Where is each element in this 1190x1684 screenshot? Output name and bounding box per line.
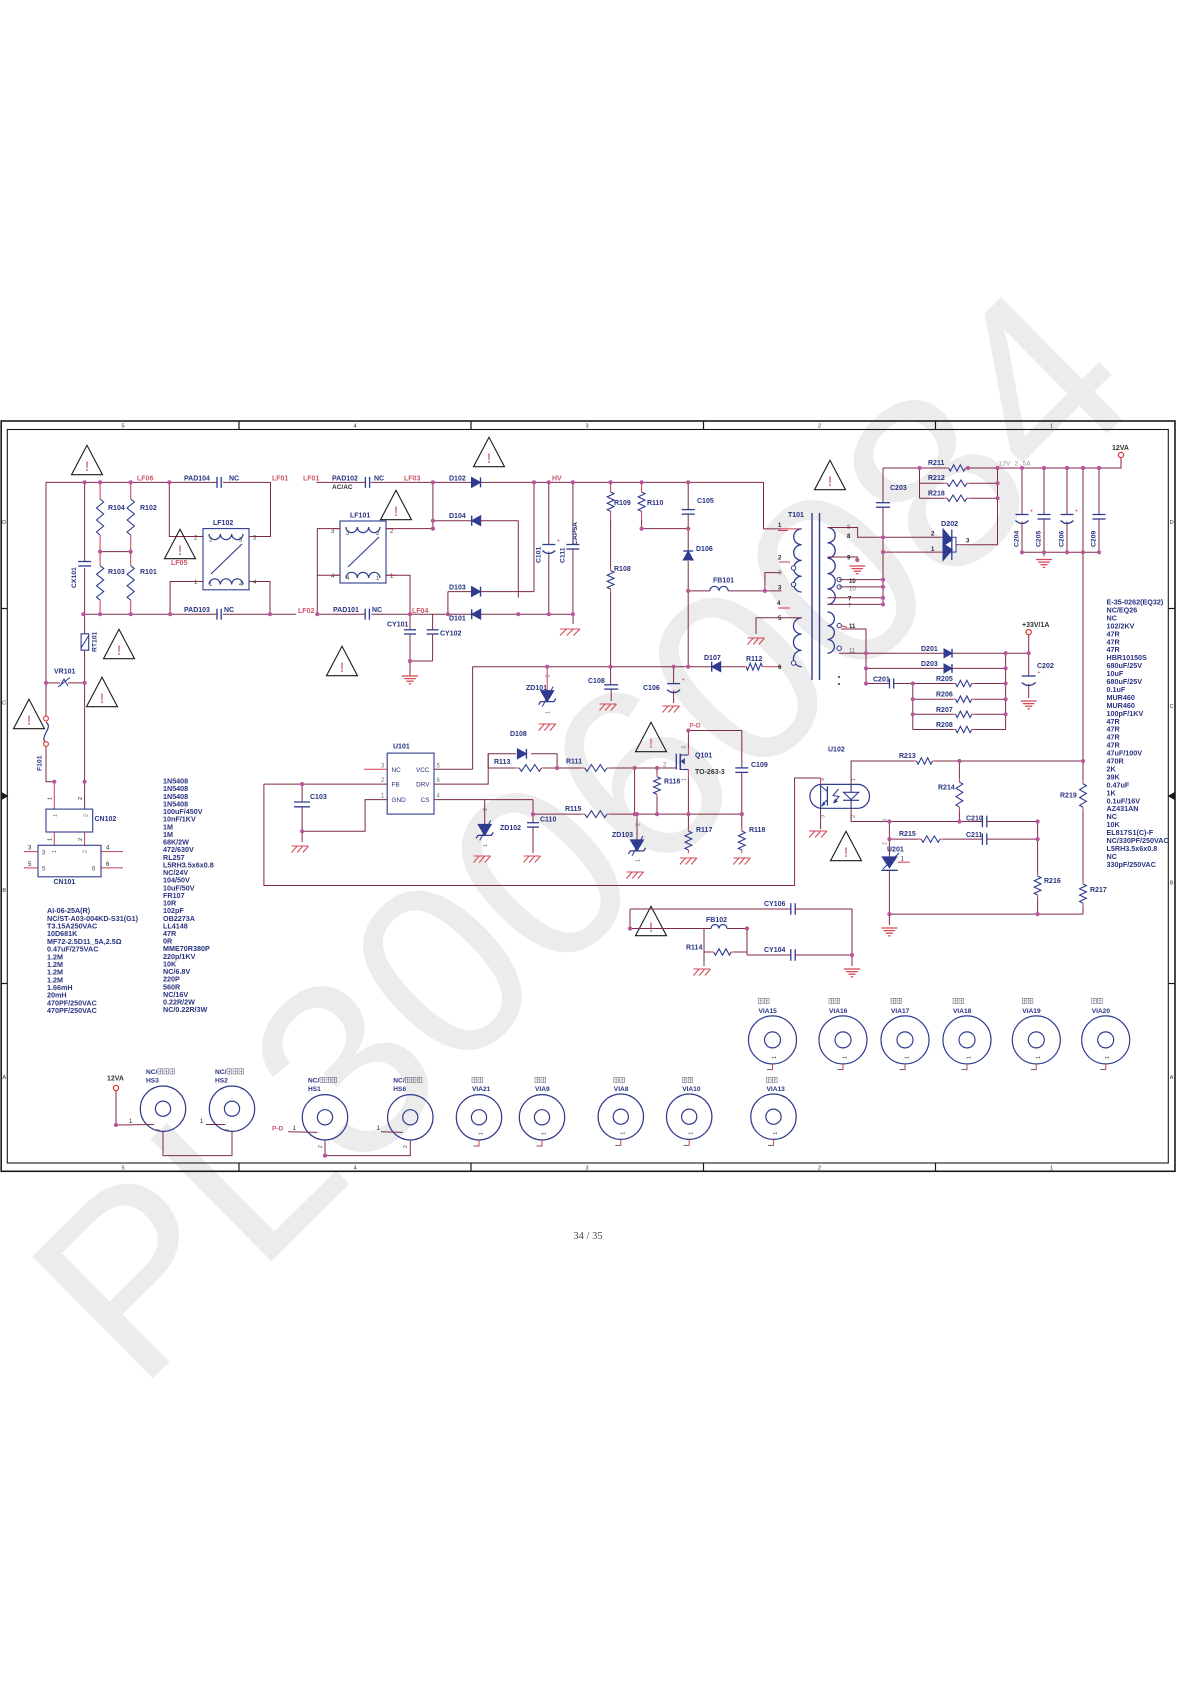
wire P-D to HS1 — [288, 1131, 317, 1134]
svg-text:R208: R208 — [936, 722, 953, 729]
resistor R215 — [918, 838, 921, 840]
svg-text:DRV: DRV — [416, 782, 430, 789]
capacitor C203 — [876, 502, 890, 504]
varistor VR101 — [46, 682, 60, 684]
svg-text:C109: C109 — [751, 762, 768, 769]
wire caps bottom bus — [1022, 551, 1099, 553]
svg-text:1: 1 — [773, 1132, 779, 1135]
svg-text:FB: FB — [392, 782, 400, 789]
wire D203 row — [866, 667, 944, 669]
svg-text:D: D — [2, 520, 6, 526]
ground below R118 — [733, 857, 750, 859]
wire LF102 pin1 to bottom bus — [170, 582, 203, 615]
wire LF102 pin3 to top bus — [249, 482, 271, 536]
wire R215 to C211 — [943, 838, 982, 840]
wire U101 pin4 CS — [434, 799, 533, 801]
svg-text:R117: R117 — [696, 827, 712, 834]
diode D108 — [517, 749, 526, 759]
resistor R103 — [99, 552, 101, 566]
diode D201 — [944, 649, 952, 658]
svg-text:1: 1 — [1050, 1165, 1053, 1171]
wire HV bus — [481, 482, 782, 529]
wire 12V return vertical — [1082, 468, 1084, 761]
svg-text:R213: R213 — [899, 753, 916, 760]
wire R110 bottom row — [641, 520, 643, 529]
svg-text:1: 1 — [851, 778, 857, 781]
text list right column — [1107, 598, 1169, 869]
wire FB loop left — [264, 783, 302, 785]
connector CN101 — [38, 845, 101, 877]
wire R112 to T101 pin6 — [765, 666, 782, 668]
capacitor C205 — [1043, 468, 1045, 515]
wire +33V vertical — [1028, 635, 1030, 676]
wire FB102 row — [629, 909, 631, 929]
wire CN101 side stubs — [24, 851, 38, 853]
svg-text:2: 2 — [83, 850, 89, 853]
resistor R109 — [610, 482, 612, 492]
inductor LF101 — [340, 521, 386, 583]
svg-text:VIA13: VIA13 — [767, 1086, 786, 1093]
ground below C202 — [1021, 700, 1037, 702]
svg-text:C108: C108 — [588, 678, 605, 685]
diode D102 — [472, 477, 481, 487]
capacitor C106 — [673, 667, 675, 684]
resistor R112 — [744, 666, 747, 668]
svg-text:HS2: HS2 — [215, 1078, 228, 1085]
svg-text:C106: C106 — [643, 685, 660, 692]
svg-text:+33V/1A: +33V/1A — [1022, 622, 1049, 629]
resistor R110 — [641, 482, 643, 492]
svg-text:R108: R108 — [614, 566, 631, 573]
resistor R117 — [687, 814, 689, 828]
svg-text:D: D — [1170, 520, 1174, 526]
svg-text:A: A — [2, 1075, 6, 1081]
wire R213 to R219 — [935, 760, 1083, 762]
wire R212 R218 to node vertical — [970, 482, 998, 484]
svg-text:C: C — [2, 701, 6, 707]
svg-text:U201: U201 — [887, 847, 904, 854]
capacitor C211 — [981, 833, 983, 845]
resistor R104 — [99, 482, 101, 499]
svg-text:1: 1 — [967, 1056, 973, 1059]
resistor R214 — [958, 761, 960, 778]
svg-text:R118: R118 — [749, 827, 765, 834]
stubs LF101 pins — [333, 528, 340, 530]
ground below C103 — [292, 845, 309, 847]
svg-text:C202: C202 — [1037, 663, 1054, 670]
svg-text:C105: C105 — [697, 498, 714, 505]
wire CY104 to ground — [795, 955, 852, 966]
svg-text:1: 1 — [48, 797, 54, 800]
svg-text:C203: C203 — [890, 485, 907, 492]
svg-text:R218: R218 — [928, 491, 945, 498]
svg-text:1: 1 — [1036, 1056, 1042, 1059]
svg-text:4: 4 — [353, 424, 356, 430]
resistor R113 — [516, 767, 520, 769]
svg-text:R111: R111 — [566, 759, 582, 766]
svg-text:HV: HV — [552, 475, 562, 482]
pad VIA17 — [891, 998, 896, 1003]
warning triangle T5 — [14, 699, 45, 728]
svg-text:HS6: HS6 — [393, 1086, 406, 1093]
warning triangle T10 — [636, 722, 667, 751]
svg-text:C204: C204 — [1014, 531, 1021, 547]
svg-text:Q101: Q101 — [695, 753, 712, 760]
svg-text:LF01: LF01 — [272, 475, 288, 482]
resistor R212 — [919, 468, 921, 498]
zener ZD103 — [636, 814, 638, 840]
zener ZD101 — [546, 667, 548, 691]
fuse F101 — [45, 683, 47, 716]
warning triangle T8 — [474, 437, 505, 466]
diode D104 — [472, 516, 481, 526]
svg-text:!: ! — [100, 691, 105, 706]
border column numbers bottom — [121, 1165, 1053, 1171]
wire D201 out — [952, 652, 1029, 654]
svg-text:+: + — [682, 678, 685, 684]
svg-text:C103: C103 — [310, 794, 327, 801]
svg-text:NC/: NC/ — [146, 1069, 158, 1076]
wire C103 bottom to ground — [301, 831, 303, 842]
ground below ZD103 — [627, 871, 644, 873]
pad VIA9 — [535, 1077, 540, 1082]
wire source row — [611, 813, 742, 815]
warning triangle T4 — [87, 677, 118, 706]
capacitor C105 — [687, 482, 689, 509]
svg-text:D108: D108 — [510, 731, 527, 738]
resistor R205 — [913, 683, 953, 685]
svg-text:VIA17: VIA17 — [891, 1008, 910, 1015]
capacitor C103 — [301, 784, 303, 802]
svg-text:LF03: LF03 — [404, 475, 420, 482]
wire U102 pin1 to R213 — [851, 761, 914, 784]
border frame outer — [1, 421, 1175, 1171]
ground below R117 — [680, 857, 697, 859]
svg-text:LF04: LF04 — [412, 608, 428, 615]
thermistor RT101 — [84, 614, 86, 634]
wire LF102 pin4 to bottom bus — [249, 582, 270, 615]
svg-text:1: 1 — [53, 814, 59, 817]
resistor R207 — [913, 713, 953, 715]
svg-text:1: 1 — [546, 711, 552, 714]
resistor R118 — [741, 814, 743, 828]
svg-text:R115: R115 — [565, 806, 581, 813]
svg-text:VIA15: VIA15 — [759, 1008, 778, 1015]
capacitor C202 — [1022, 675, 1036, 677]
transformer T101 core — [811, 513, 813, 680]
svg-text:!: ! — [178, 543, 183, 558]
wire DRV to R113 — [488, 767, 516, 769]
svg-text:2: 2 — [818, 1165, 821, 1171]
wire 12VA to HS3 — [116, 1124, 154, 1127]
svg-text:R110: R110 — [647, 500, 663, 507]
svg-text:VIA18: VIA18 — [953, 1008, 972, 1015]
ground below C110 — [524, 855, 541, 857]
resistor R218 — [920, 497, 945, 499]
capacitor PAD101 — [364, 609, 366, 620]
svg-text:1: 1 — [52, 850, 58, 853]
warning triangle T11 — [831, 831, 862, 860]
wire left vertical from top bus to VR101 row — [45, 482, 47, 683]
wire ladder right vertical — [1005, 653, 1007, 729]
svg-text:R116: R116 — [664, 779, 680, 786]
wire D202 pin3 to rail — [956, 542, 998, 545]
wire secondary taps to vertical — [839, 579, 883, 581]
svg-text:!: ! — [828, 474, 833, 489]
svg-text:CY102: CY102 — [440, 631, 462, 638]
wire U101 pin1 GND loop — [302, 800, 387, 832]
svg-text:2: 2 — [883, 842, 889, 845]
svg-text:B: B — [1170, 881, 1174, 887]
svg-text:470PF/250VAC: 470PF/250VAC — [47, 1006, 97, 1015]
wire U101 pin3 stub — [364, 768, 387, 770]
wire HS2 pin1 stub — [206, 1124, 225, 1126]
wire R216 vertical — [1037, 822, 1039, 874]
wire R104 R102 mid row — [100, 551, 131, 553]
svg-text:!: ! — [340, 660, 345, 675]
svg-text:LF06: LF06 — [137, 475, 153, 482]
svg-text:C205: C205 — [1036, 531, 1043, 547]
svg-text:D104: D104 — [449, 513, 466, 520]
transformer dots mark — [838, 676, 840, 678]
svg-text:TO-263-3: TO-263-3 — [695, 769, 725, 776]
warning triangle T12 — [636, 906, 667, 935]
svg-text:!: ! — [117, 643, 122, 658]
svg-text:R219: R219 — [1060, 793, 1077, 800]
svg-text:GND: GND — [392, 797, 407, 804]
svg-text:R205: R205 — [936, 676, 953, 683]
warning triangle T2 — [165, 529, 196, 558]
svg-text:R215: R215 — [899, 831, 916, 838]
svg-text:2: 2 — [78, 797, 84, 800]
svg-text:R109: R109 — [614, 500, 631, 507]
svg-text:2: 2 — [78, 838, 84, 841]
capacitor C206 — [1066, 468, 1068, 515]
svg-text:R113: R113 — [494, 759, 510, 766]
svg-text:NC/: NC/ — [393, 1078, 405, 1085]
capacitor CY102 — [432, 614, 434, 630]
svg-text:R206: R206 — [936, 692, 953, 699]
svg-text:NC/: NC/ — [308, 1078, 320, 1085]
svg-text:2: 2 — [84, 814, 90, 817]
svg-text:4: 4 — [821, 778, 827, 781]
svg-text:NC: NC — [372, 607, 382, 614]
svg-text:LF101: LF101 — [350, 513, 370, 520]
wire D203 out — [952, 667, 1006, 669]
connector CN102 — [46, 809, 93, 832]
svg-text:R216: R216 — [1044, 878, 1061, 885]
svg-text:!: ! — [85, 459, 90, 474]
svg-text:2: 2 — [818, 424, 821, 430]
svg-text:3: 3 — [821, 815, 827, 818]
svg-text:C: C — [1170, 704, 1174, 710]
ground below C111 — [560, 628, 580, 630]
pad VIA18 — [953, 998, 958, 1003]
wire F101 to CN102 — [46, 746, 54, 781]
svg-text:NC: NC — [374, 475, 384, 482]
warning triangle T3 — [104, 629, 135, 658]
warning triangle T1 — [72, 445, 103, 474]
svg-text:VIA21: VIA21 — [472, 1086, 491, 1093]
resistor R211 — [946, 467, 949, 469]
wire U101 pin2 FB — [302, 783, 387, 785]
svg-text:C210: C210 — [966, 815, 983, 822]
wire T101 pin8 to D202 — [828, 528, 944, 538]
resistor R219 — [1082, 761, 1084, 780]
terminal 12VA — [1118, 452, 1123, 457]
wire R113 right — [545, 767, 581, 769]
wire D202 pin1 row — [883, 551, 943, 553]
svg-text:2: 2 — [318, 1145, 324, 1148]
capacitor C108 — [610, 667, 612, 685]
svg-text:2: 2 — [403, 1145, 409, 1148]
svg-text:D203: D203 — [921, 661, 938, 668]
svg-text:CY106: CY106 — [764, 901, 786, 908]
svg-text:VIA20: VIA20 — [1092, 1008, 1111, 1015]
wire C211 to R216 vertical — [987, 838, 1038, 840]
pad VIA21 — [472, 1077, 477, 1082]
svg-text:C110: C110 — [540, 817, 556, 824]
ic U101 box — [387, 753, 434, 814]
svg-text:C201: C201 — [873, 676, 890, 683]
svg-text:D103: D103 — [449, 584, 466, 591]
svg-text:R102: R102 — [140, 505, 157, 512]
wire D106 to FB101 row and bottom — [687, 591, 689, 667]
svg-text:ZD102: ZD102 — [500, 825, 521, 832]
svg-text:CAP5A: CAP5A — [572, 522, 579, 545]
svg-text:R211: R211 — [928, 460, 944, 467]
svg-text:2: 2 — [156, 1129, 162, 1132]
inductor FB102 — [711, 925, 727, 929]
capacitor CY104 — [790, 949, 792, 961]
svg-text:R101: R101 — [140, 569, 157, 576]
warning triangle T6 — [381, 490, 412, 519]
pad VIA20 — [1092, 998, 1097, 1003]
inductor LF102 — [203, 529, 249, 590]
warning triangle T9 — [815, 460, 846, 489]
svg-text:2: 2 — [483, 808, 489, 811]
svg-text:CN101: CN101 — [54, 879, 76, 886]
svg-text:VIA19: VIA19 — [1022, 1008, 1041, 1015]
wire FB101 to T101 pin3 — [765, 590, 782, 592]
capacitor CY106 — [790, 903, 792, 915]
wire LF101 pins 3 4 to bottom bus — [317, 529, 340, 615]
resistor R101 — [130, 552, 132, 566]
svg-text:VIA9: VIA9 — [535, 1086, 550, 1093]
wire CY101 CY102 join — [410, 660, 433, 662]
svg-text:C206: C206 — [1059, 531, 1066, 547]
border frame inner — [7, 430, 1168, 1164]
svg-text:R114: R114 — [686, 945, 702, 952]
pad VIA16 — [829, 998, 834, 1003]
wire Q101 drain to P-D row — [688, 731, 741, 749]
svg-text:RT101: RT101 — [92, 631, 99, 652]
svg-text:R104: R104 — [108, 505, 125, 512]
transformer T101 secondary upper winding — [828, 528, 836, 605]
wire C201 row — [865, 653, 867, 683]
svg-text:1: 1 — [636, 859, 642, 862]
border center arrows — [2, 792, 9, 800]
resistor R108 — [610, 520, 612, 568]
svg-text:LF02: LF02 — [298, 608, 314, 615]
ground below C106 — [663, 705, 680, 707]
svg-text:!: ! — [487, 451, 492, 466]
wire R114 ground stub — [703, 952, 705, 966]
transformer T101 secondary phase dots — [837, 577, 841, 581]
ground below R114 — [694, 968, 711, 970]
capacitor CY101 — [409, 614, 411, 630]
svg-text:1: 1 — [483, 844, 489, 847]
wire R115 row — [533, 813, 581, 815]
wire CY106 to right vertical — [795, 909, 852, 955]
svg-text:1: 1 — [1050, 424, 1053, 430]
resistor R111 — [581, 767, 585, 769]
inductor FB101 — [688, 590, 710, 592]
wire AC bottom bus — [83, 613, 217, 615]
svg-text:1: 1 — [1105, 1056, 1111, 1059]
svg-text:A: A — [1170, 1075, 1174, 1081]
diode D106 — [687, 529, 689, 551]
ground below ZD101 — [539, 723, 556, 725]
svg-text:PAD104: PAD104 — [184, 475, 210, 482]
wire T101 pin9 row — [828, 557, 858, 560]
capacitor PAD104 — [216, 477, 218, 488]
transformer T101 primary upper winding — [782, 528, 802, 530]
svg-text:ZD103: ZD103 — [612, 832, 633, 839]
wire T101 pin11 top row — [841, 629, 866, 653]
svg-text:1: 1 — [843, 1056, 849, 1059]
ground at T101 pin5 — [748, 637, 765, 639]
svg-text:34 / 35: 34 / 35 — [573, 1231, 602, 1242]
svg-text:1: 1 — [48, 838, 54, 841]
svg-text:CY101: CY101 — [387, 622, 409, 629]
svg-text:T101: T101 — [788, 512, 804, 519]
resistor R102 — [130, 482, 132, 499]
wire U102 pin4 stub — [820, 778, 822, 784]
capacitor C111 — [572, 482, 574, 544]
ground below caps bus — [1036, 559, 1052, 561]
svg-text:3: 3 — [681, 746, 687, 749]
capacitor C110 — [532, 800, 534, 823]
diode D103 — [472, 587, 481, 597]
svg-text:NC: NC — [224, 607, 234, 614]
transistor Q101 — [675, 754, 677, 770]
wire CX101 branch vertical — [84, 482, 86, 561]
wire U101 pin6 DRV — [434, 754, 516, 784]
resistor R116 — [656, 768, 658, 776]
capacitor C209 — [1098, 468, 1100, 515]
svg-text:NC/: NC/ — [215, 1069, 227, 1076]
svg-text:12V 2.5A: 12V 2.5A — [998, 461, 1032, 469]
svg-text:B: B — [2, 888, 6, 894]
wire C201 to ladder — [894, 683, 913, 685]
resistor R208 — [913, 729, 953, 731]
pad VIA8 — [614, 1077, 619, 1082]
text list middle column — [163, 777, 214, 1015]
wire R215 row — [889, 838, 918, 840]
diode D101 — [472, 609, 481, 619]
svg-text:+: + — [1075, 509, 1078, 515]
svg-text:HS3: HS3 — [146, 1078, 159, 1085]
wire R114 row — [703, 929, 705, 953]
wire HS6 pin1 stub — [381, 1131, 403, 1134]
svg-text:CX101: CX101 — [71, 567, 78, 588]
wire U101 pin5 VCC riser — [434, 768, 473, 770]
capacitor C109 — [741, 731, 743, 768]
svg-text:1: 1 — [689, 1132, 695, 1135]
svg-text:C209: C209 — [1091, 531, 1098, 547]
wire CN102 to CN101 — [53, 832, 55, 845]
